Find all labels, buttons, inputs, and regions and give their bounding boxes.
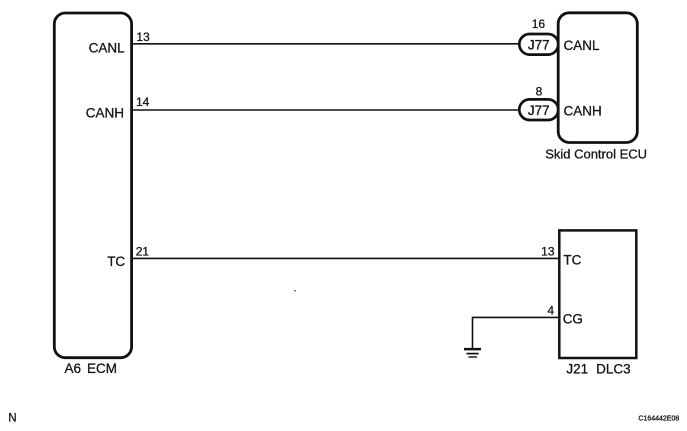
- svg-text:13: 13: [541, 244, 555, 258]
- svg-text:TC: TC: [563, 252, 581, 267]
- svg-text:4: 4: [547, 303, 554, 317]
- connector A6 ECM: [54, 13, 131, 358]
- ground symbol: [464, 349, 481, 357]
- svg-text:CANL: CANL: [89, 40, 126, 55]
- svg-text:14: 14: [136, 95, 150, 109]
- wire TC: ECM pin 21 to DLC3 pin 13: [130, 257, 559, 259]
- svg-text:J77: J77: [528, 103, 550, 118]
- connector J77 (CANL splice): [519, 34, 558, 55]
- svg-text:13: 13: [136, 30, 150, 44]
- svg-text:DLC3: DLC3: [596, 361, 631, 376]
- ECU box Skid Control ECU: [558, 13, 637, 143]
- svg-text:CG: CG: [563, 311, 583, 326]
- svg-text:21: 21: [136, 245, 150, 259]
- svg-text:J77: J77: [528, 38, 550, 53]
- connector J77 (CANH splice): [519, 99, 558, 120]
- svg-text:16: 16: [532, 17, 546, 31]
- svg-text:A6: A6: [65, 361, 82, 376]
- svg-text:CANL: CANL: [564, 38, 601, 53]
- svg-text:TC: TC: [107, 254, 125, 269]
- svg-text:C164442E08: C164442E08: [638, 415, 679, 422]
- wire CG: DLC3 pin 4 to ground: [473, 317, 560, 349]
- svg-text:ECM: ECM: [87, 361, 117, 376]
- connector J21 DLC3: [559, 230, 636, 358]
- wire CANH: ECM pin 14 to J77: [130, 109, 519, 111]
- speck: [294, 290, 296, 292]
- svg-text:Skid Control ECU: Skid Control ECU: [545, 146, 647, 161]
- svg-text:CANH: CANH: [564, 103, 602, 118]
- wire CANL: ECM pin 13 to J77: [130, 43, 519, 45]
- label J21 DLC3: [566, 361, 630, 376]
- label A6 ECM: [65, 361, 118, 376]
- svg-text:J21: J21: [566, 361, 588, 376]
- svg-text:CANH: CANH: [86, 106, 124, 121]
- svg-text:N: N: [8, 413, 16, 425]
- svg-text:8: 8: [536, 84, 543, 98]
